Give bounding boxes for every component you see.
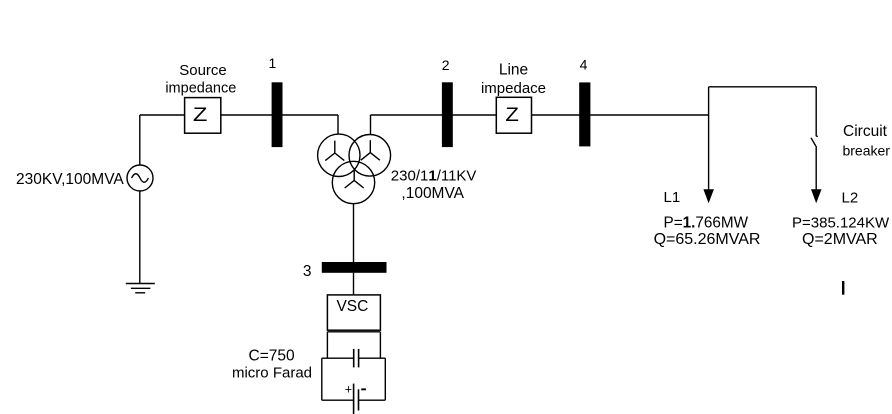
svg-text:,100MVA: ,100MVA [401,185,464,202]
svg-text:Circuit: Circuit [843,123,888,140]
svg-text:VSC: VSC [336,298,368,315]
svg-text:L2: L2 [842,190,859,207]
svg-text:Z: Z [505,105,519,126]
svg-text:breaker: breaker [842,142,890,158]
svg-text:L1: L1 [664,189,681,206]
svg-text:impedace: impedace [481,80,546,97]
svg-text:micro Farad: micro Farad [232,365,312,382]
svg-text:4: 4 [580,57,588,73]
svg-text:Source: Source [179,62,227,79]
svg-text:230KV,100MVA: 230KV,100MVA [16,171,124,188]
svg-text:Q=2MVAR: Q=2MVAR [802,231,878,248]
svg-text:P=1.766MW: P=1.766MW [664,215,749,232]
svg-text:1: 1 [269,55,277,71]
svg-text:230/11/11KV: 230/11/11KV [391,168,477,185]
svg-text:Z: Z [193,105,208,126]
svg-text:impedance: impedance [165,81,236,97]
svg-text:Line: Line [499,61,528,78]
svg-text:3: 3 [303,263,312,280]
svg-text:Q=65.26MVAR: Q=65.26MVAR [654,231,761,248]
svg-text:P=385.124KW: P=385.124KW [792,214,890,231]
svg-text:C=750: C=750 [249,348,295,365]
svg-text:+: + [345,383,352,397]
svg-text:2: 2 [442,57,450,73]
